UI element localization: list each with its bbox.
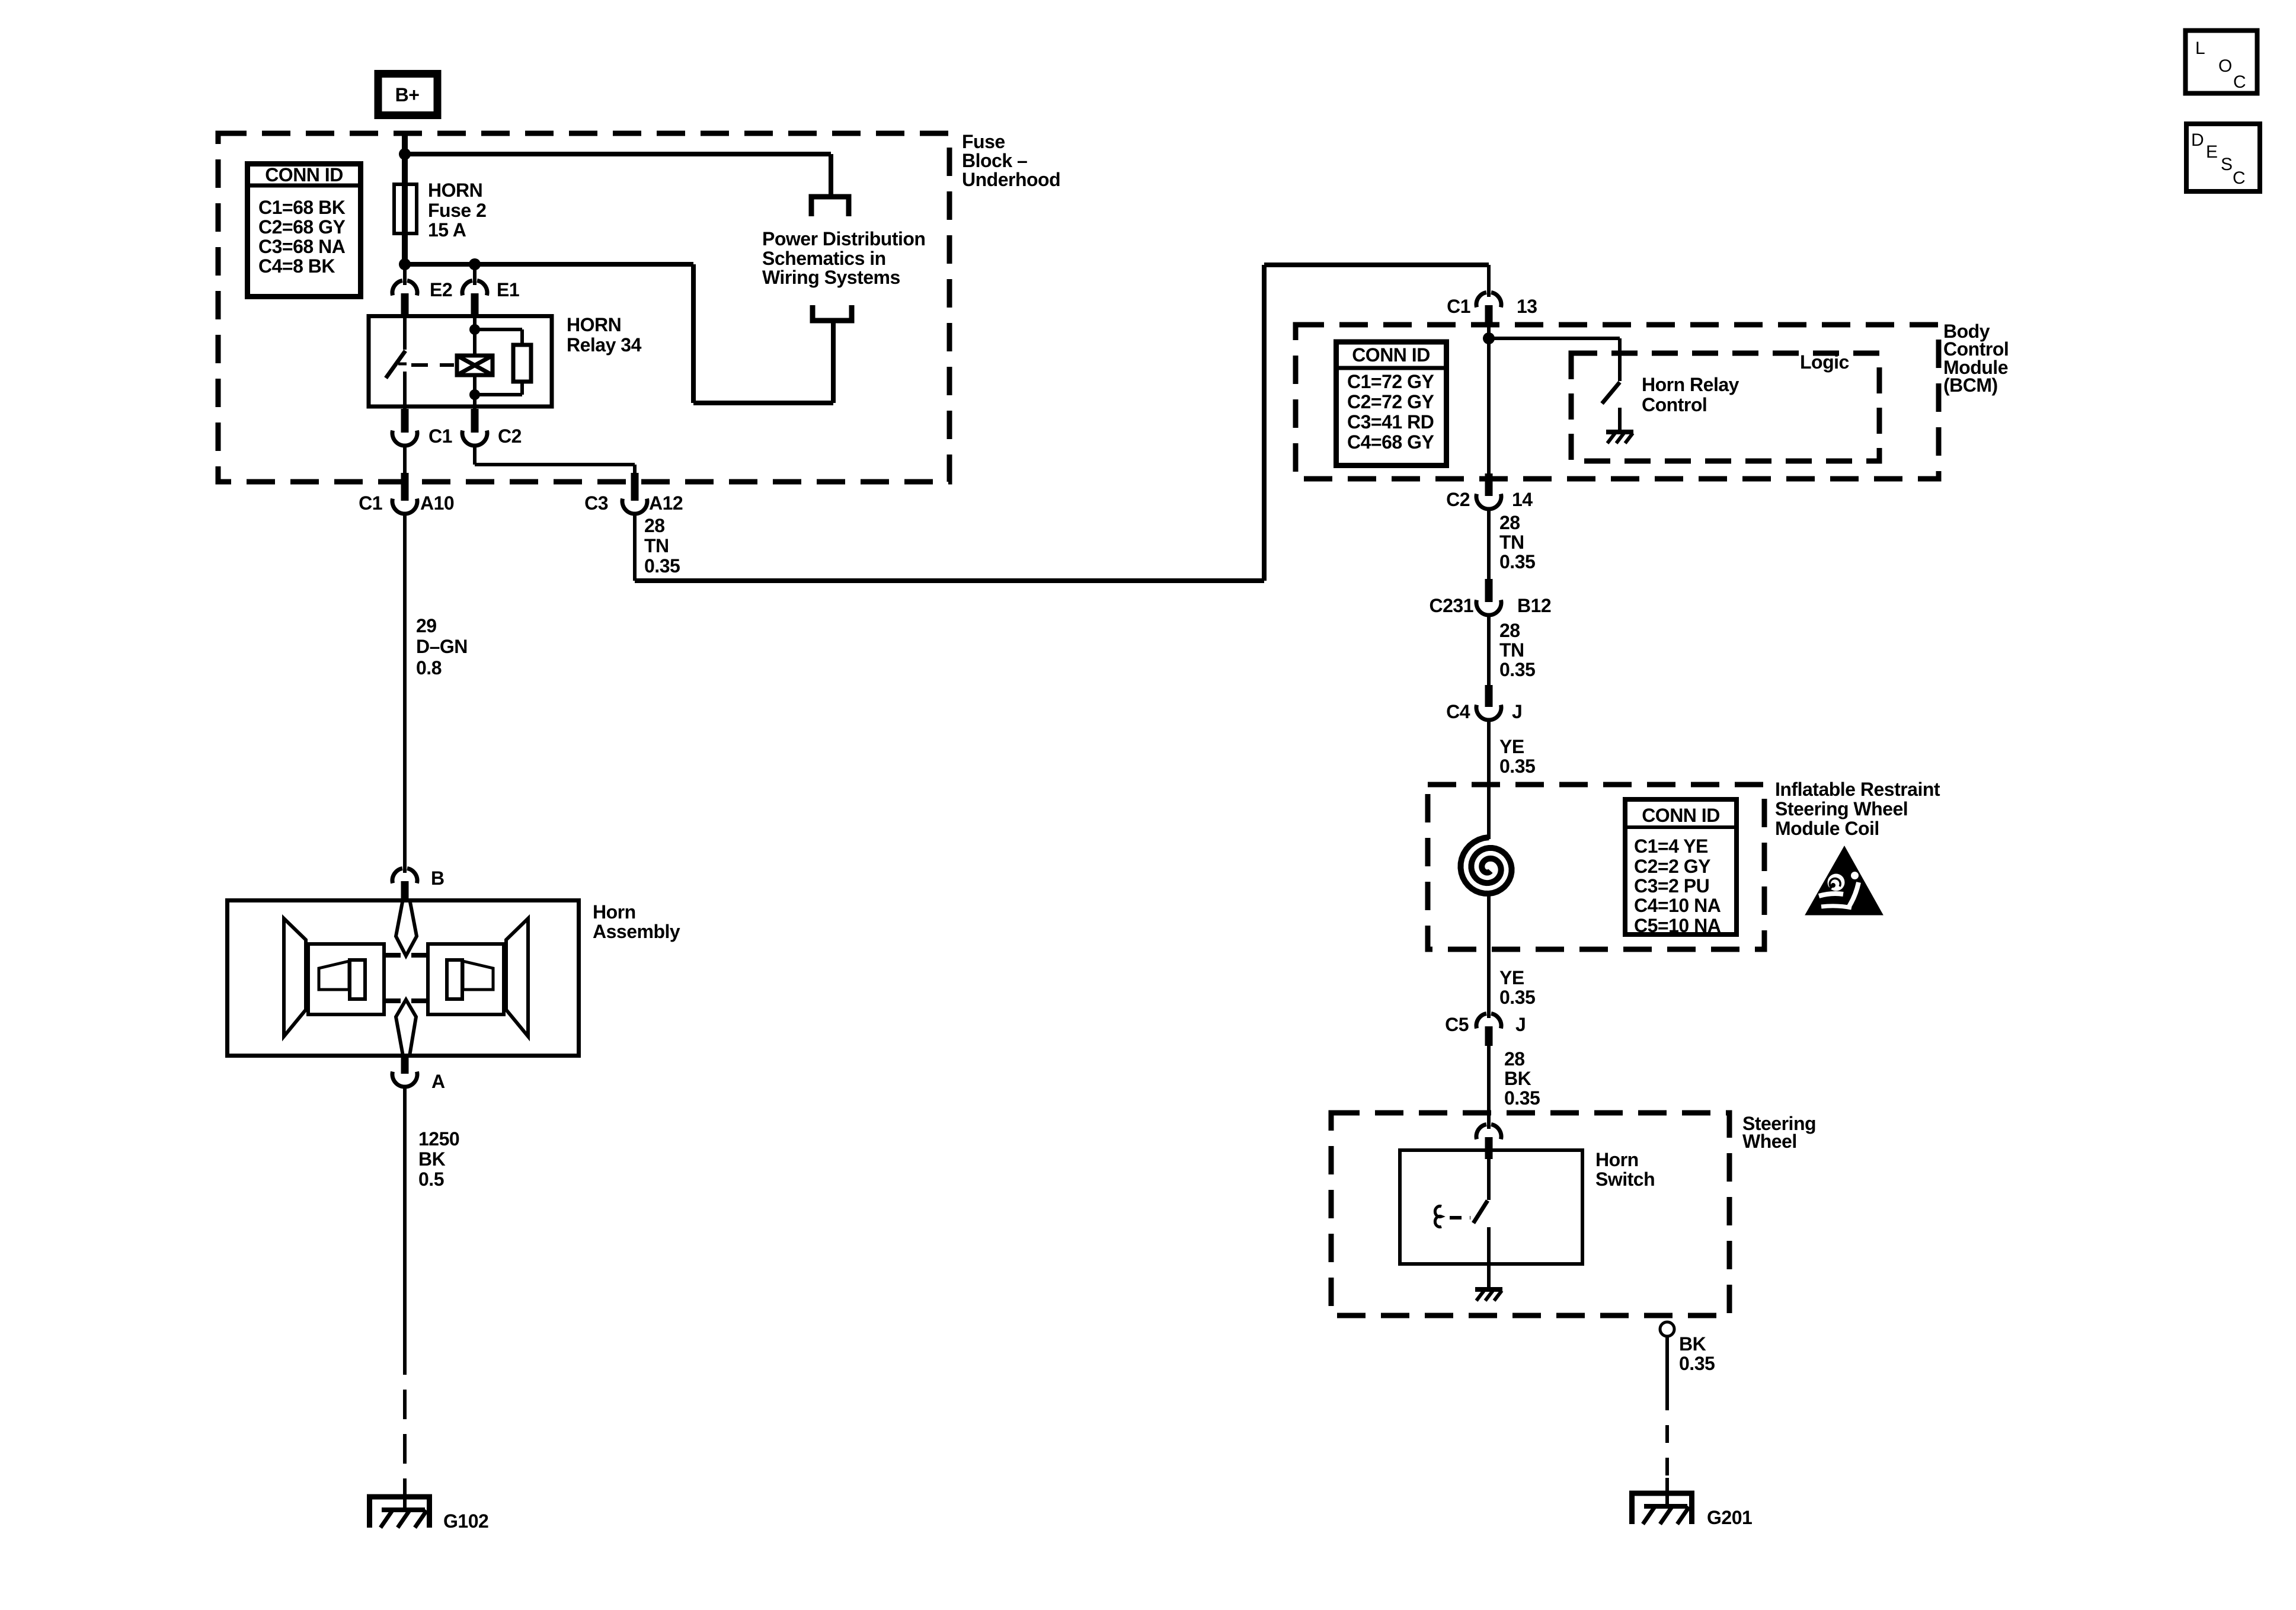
svg-text:0.35: 0.35: [1499, 551, 1535, 572]
svg-text:TN: TN: [644, 535, 669, 556]
svg-text:C2=68 GY: C2=68 GY: [258, 216, 345, 238]
svg-text:0.35: 0.35: [644, 555, 680, 577]
svg-text:C3=68 NA: C3=68 NA: [258, 236, 346, 257]
svg-text:TN: TN: [1499, 639, 1524, 661]
svg-text:O: O: [2218, 56, 2232, 76]
svg-text:C4=10 NA: C4=10 NA: [1634, 895, 1721, 916]
svg-text:0.5: 0.5: [418, 1169, 444, 1190]
svg-text:BK: BK: [1504, 1068, 1531, 1089]
svg-text:C1=4 YE: C1=4 YE: [1634, 836, 1708, 857]
svg-text:B: B: [431, 868, 445, 889]
svg-text:BK: BK: [418, 1148, 446, 1170]
svg-text:Horn: Horn: [1595, 1149, 1639, 1170]
svg-text:C: C: [2233, 168, 2246, 188]
svg-text:HORN: HORN: [567, 314, 621, 335]
svg-text:28: 28: [1504, 1048, 1525, 1070]
svg-text:HORN: HORN: [428, 180, 482, 201]
svg-text:TN: TN: [1499, 532, 1524, 553]
svg-text:L: L: [2195, 39, 2205, 58]
svg-text:(BCM): (BCM): [1943, 375, 1998, 396]
svg-text:E: E: [2206, 142, 2218, 162]
svg-text:Fuse 2: Fuse 2: [428, 200, 486, 221]
svg-text:Switch: Switch: [1595, 1169, 1655, 1190]
svg-text:B+: B+: [395, 84, 420, 105]
svg-text:Wheel: Wheel: [1742, 1131, 1797, 1152]
svg-text:D: D: [2191, 130, 2204, 150]
svg-text:13: 13: [1517, 296, 1537, 317]
svg-text:J: J: [1515, 1014, 1526, 1035]
svg-text:C231: C231: [1430, 595, 1474, 616]
svg-text:0.35: 0.35: [1499, 987, 1535, 1008]
svg-text:C: C: [2233, 72, 2246, 92]
svg-text:28: 28: [1499, 512, 1520, 533]
svg-text:C4: C4: [1446, 701, 1470, 722]
svg-text:Relay 34: Relay 34: [567, 334, 642, 356]
svg-text:Logic: Logic: [1800, 351, 1849, 373]
svg-text:C1=72 GY: C1=72 GY: [1347, 371, 1434, 392]
svg-text:Block –: Block –: [962, 150, 1027, 171]
svg-text:Steering Wheel: Steering Wheel: [1775, 798, 1908, 820]
svg-text:0.35: 0.35: [1679, 1353, 1715, 1374]
svg-text:Power Distribution: Power Distribution: [762, 228, 925, 249]
svg-text:G201: G201: [1707, 1507, 1752, 1528]
svg-text:29: 29: [416, 615, 437, 636]
svg-text:BK: BK: [1679, 1333, 1706, 1355]
svg-text:C5=10 NA: C5=10 NA: [1634, 915, 1721, 936]
svg-text:YE: YE: [1499, 736, 1524, 757]
svg-text:YE: YE: [1499, 967, 1524, 988]
svg-text:CONN ID: CONN ID: [1352, 344, 1430, 366]
svg-text:Schematics in: Schematics in: [762, 248, 886, 269]
svg-text:C1=68 BK: C1=68 BK: [258, 197, 346, 218]
svg-text:Horn: Horn: [593, 901, 636, 923]
svg-text:A10: A10: [420, 492, 454, 514]
svg-text:S: S: [2221, 155, 2233, 174]
svg-text:0.8: 0.8: [416, 657, 442, 678]
svg-text:A12: A12: [649, 492, 683, 514]
svg-text:Control: Control: [1642, 394, 1707, 415]
svg-text:C1: C1: [428, 425, 452, 447]
svg-text:E2: E2: [430, 279, 452, 300]
svg-text:CONN ID: CONN ID: [265, 164, 343, 185]
svg-text:C4=68 GY: C4=68 GY: [1347, 431, 1434, 453]
svg-text:0.35: 0.35: [1504, 1087, 1540, 1109]
svg-text:C2: C2: [1446, 489, 1470, 510]
svg-text:Inflatable Restraint: Inflatable Restraint: [1775, 779, 1940, 800]
svg-text:Horn Relay: Horn Relay: [1642, 374, 1739, 395]
svg-text:0.35: 0.35: [1499, 756, 1535, 777]
svg-text:C2=2 GY: C2=2 GY: [1634, 856, 1710, 877]
svg-text:C1: C1: [1447, 296, 1470, 317]
svg-text:28: 28: [1499, 620, 1520, 641]
svg-text:C1: C1: [359, 492, 382, 514]
svg-text:Underhood: Underhood: [962, 169, 1060, 190]
svg-text:C2=72 GY: C2=72 GY: [1347, 391, 1434, 412]
svg-text:E1: E1: [497, 279, 519, 300]
svg-text:C3=2 PU: C3=2 PU: [1634, 875, 1709, 897]
svg-text:C4=8 BK: C4=8 BK: [258, 255, 335, 277]
svg-text:A: A: [431, 1071, 445, 1092]
svg-text:J: J: [1512, 701, 1522, 722]
svg-text:C3=41 RD: C3=41 RD: [1347, 411, 1434, 433]
svg-text:D–GN: D–GN: [416, 636, 468, 657]
svg-text:Fuse: Fuse: [962, 131, 1005, 152]
svg-text:15 A: 15 A: [428, 219, 466, 241]
svg-text:C5: C5: [1445, 1014, 1469, 1035]
svg-text:B12: B12: [1517, 595, 1551, 616]
svg-text:28: 28: [644, 515, 665, 536]
svg-text:0.35: 0.35: [1499, 659, 1535, 680]
svg-text:G102: G102: [443, 1510, 488, 1532]
svg-text:Module Coil: Module Coil: [1775, 818, 1879, 839]
svg-text:C3: C3: [584, 492, 608, 514]
svg-text:C2: C2: [498, 425, 522, 447]
svg-text:14: 14: [1512, 489, 1533, 510]
svg-text:CONN ID: CONN ID: [1642, 805, 1720, 826]
svg-text:1250: 1250: [418, 1128, 459, 1150]
svg-text:Assembly: Assembly: [593, 921, 680, 942]
svg-text:Wiring Systems: Wiring Systems: [762, 267, 900, 288]
